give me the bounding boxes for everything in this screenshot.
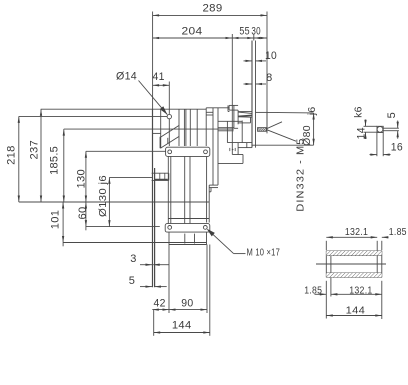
svg-text:90: 90 [181,297,193,309]
svg-text:8: 8 [266,72,272,84]
svg-text:101: 101 [50,210,62,230]
svg-text:Ø130 j6: Ø130 j6 [97,175,109,217]
svg-text:k6: k6 [353,106,365,118]
svg-text:218: 218 [6,145,18,165]
svg-text:DIN332 - M5: DIN332 - M5 [294,138,306,212]
svg-text:130: 130 [75,169,87,189]
svg-text:289: 289 [203,3,223,15]
svg-text:1.85: 1.85 [304,286,322,297]
svg-text:3: 3 [130,253,136,265]
svg-text:42: 42 [154,297,166,309]
svg-text:Ø14: Ø14 [116,70,137,82]
svg-text:10: 10 [265,50,277,62]
svg-text:144: 144 [346,306,366,317]
svg-text:55: 55 [239,26,249,38]
svg-text:5: 5 [129,275,135,287]
svg-text:1.85: 1.85 [389,227,407,238]
svg-text:16: 16 [391,142,403,154]
svg-text:185.5: 185.5 [48,146,60,175]
svg-text:14: 14 [355,127,367,139]
svg-text:204: 204 [182,26,203,38]
svg-text:144: 144 [172,319,192,331]
svg-text:5: 5 [386,112,398,118]
svg-text:30: 30 [251,26,260,38]
svg-text:41: 41 [153,71,165,83]
svg-text:60: 60 [77,207,89,220]
svg-text:132.1: 132.1 [345,227,368,238]
svg-text:j6: j6 [306,106,318,116]
svg-text:132.1: 132.1 [349,286,372,297]
svg-text:M 10 ×17: M 10 ×17 [247,247,281,258]
svg-text:237: 237 [28,140,40,160]
